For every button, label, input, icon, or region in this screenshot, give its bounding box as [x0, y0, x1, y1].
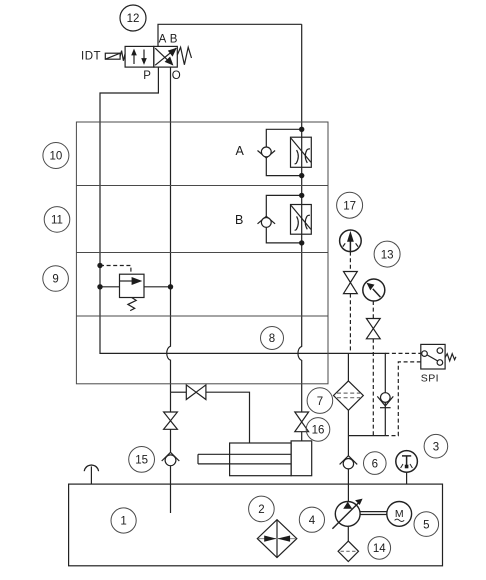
manifold divider line 2 — [76, 252, 328, 254]
circle label 5 — [414, 512, 439, 537]
gauge 13 dashed stem — [372, 301, 374, 319]
svg-text:P: P — [143, 70, 151, 82]
circle label 4 — [299, 507, 324, 532]
dashed wire pressure rail to SPI switch — [385, 352, 421, 354]
svg-text:14: 14 — [373, 543, 386, 555]
dashed wire valve 13 down to pump junction — [372, 339, 374, 436]
air breather vent — [84, 465, 98, 484]
pressure gauge 13 — [363, 279, 385, 301]
svg-text:A: A — [236, 144, 245, 158]
gauge 17 dashed stem — [349, 252, 351, 272]
relief valve 9 pilot line (dashed) — [100, 266, 131, 275]
cylinder cap-end chamber — [291, 441, 312, 476]
shutoff valve (horizontal, cylinder line) — [186, 385, 206, 400]
circle label 8 — [261, 327, 284, 350]
node dot relief right — [168, 284, 173, 289]
svg-text:5: 5 — [423, 519, 429, 531]
wire A-port up and across to main line — [158, 24, 302, 46]
node dot B bottom — [299, 240, 304, 245]
circle label 17 — [337, 192, 363, 218]
throttle valve B — [291, 205, 312, 235]
manifold divider line 3 — [76, 315, 328, 317]
check valve A seat — [258, 151, 276, 159]
wire main line (A/B work line) down right side with jog over pressure line — [298, 24, 302, 412]
manifold block outline — [76, 122, 328, 384]
svg-text:16: 16 — [312, 425, 325, 437]
check valve 15 ball — [165, 455, 176, 466]
wire pump to suction filter 14 — [347, 526, 349, 541]
check valve (pressure rail) seat — [377, 396, 393, 406]
circle label 13 — [374, 241, 400, 267]
circle label 1 — [111, 508, 136, 533]
junction wire at pump outlet — [348, 435, 385, 437]
node dot A bottom — [299, 173, 304, 178]
svg-text:1: 1 — [120, 516, 126, 528]
solenoid actuator — [105, 51, 125, 61]
circle label 6 — [364, 452, 387, 475]
cooler 2 diamond — [257, 520, 297, 558]
check valve 15 seat — [162, 452, 180, 461]
svg-text:13: 13 — [381, 249, 394, 261]
circle label 7 — [307, 388, 333, 414]
solenoid valve 12 body left position (parallel arrows) — [125, 46, 154, 67]
svg-text:8: 8 — [269, 333, 275, 345]
wire P-port to pressure rail — [100, 67, 385, 393]
circle label 15 — [129, 447, 155, 473]
node dot relief left — [97, 284, 102, 289]
tank 1 — [69, 484, 443, 566]
thermometer 3 — [396, 451, 418, 473]
wire filter 7 to junction — [347, 410, 349, 455]
svg-text:9: 9 — [52, 274, 58, 286]
wire valve 16 to cylinder cap end — [301, 432, 303, 441]
check valve A ball — [261, 147, 271, 157]
svg-text:A: A — [159, 34, 167, 46]
variable displacement pump 4 — [332, 499, 362, 529]
svg-text:B: B — [235, 213, 243, 227]
dashed wire valve to pressure rail — [349, 294, 351, 354]
valve return spring — [177, 47, 191, 65]
node dot B top — [299, 193, 304, 198]
wire check valve 15 into tank — [170, 466, 172, 513]
pressure gauge 17 — [340, 230, 362, 252]
circle label 2 — [249, 496, 275, 522]
svg-text:O: O — [172, 70, 181, 82]
check valve 6 seat — [340, 456, 358, 465]
filter 7 diamond — [334, 381, 364, 410]
pump-motor shaft — [360, 512, 387, 515]
circle label 14 — [368, 537, 391, 560]
circle label 10 — [43, 143, 69, 169]
check valve B ball — [261, 218, 271, 228]
cylinder rod — [198, 454, 291, 464]
node dot pilot tap — [97, 263, 102, 268]
wire check valve 6 to pump — [347, 469, 349, 502]
port labels A B P O — [143, 34, 181, 83]
wire valve to cylinder rod end — [206, 392, 250, 443]
svg-text:12: 12 — [127, 13, 140, 25]
node dot A top — [299, 127, 304, 132]
wire rail to filter 7 — [347, 353, 349, 381]
svg-text:11: 11 — [51, 215, 63, 227]
suction filter 14 diamond — [338, 541, 358, 561]
wire pressure rail lower segment below check valve — [384, 402, 386, 436]
svg-text:2: 2 — [258, 504, 264, 516]
cylinder return tee wire — [171, 391, 187, 393]
relief valve 9 spring — [128, 298, 136, 311]
circle label 3 — [424, 434, 448, 458]
wire O branch down to drain valve — [170, 392, 172, 412]
svg-text:3: 3 — [433, 441, 439, 453]
svg-text:4: 4 — [309, 515, 316, 527]
check valve (pressure rail) ball — [381, 393, 391, 403]
circle label 12 — [120, 5, 146, 31]
svg-text:10: 10 — [50, 151, 63, 163]
throttle valve A — [291, 137, 312, 167]
manifold divider line 1 — [76, 185, 328, 187]
check valve B seat — [258, 216, 276, 224]
circle label 11 — [44, 207, 70, 233]
shutoff valve 16 — [295, 412, 309, 432]
solenoid valve 12 body right position (crossed arrows) — [154, 46, 178, 67]
relief valve 9 body — [120, 274, 145, 297]
svg-text:IDT: IDT — [81, 51, 101, 63]
dashed wire SPI lower port to pump junction — [385, 362, 421, 436]
drain shutoff valve (above 15) — [164, 412, 178, 429]
check valve 6 ball — [343, 459, 353, 469]
gauge isolator valve (under 13) — [366, 319, 380, 339]
wire relief valve left port — [100, 286, 120, 288]
section B bypass wire — [266, 195, 301, 216]
wire O-port line down with jog over pressure rail — [167, 67, 171, 392]
thermometer stem — [406, 472, 408, 484]
svg-text:M: M — [395, 508, 404, 520]
svg-text:17: 17 — [343, 200, 356, 212]
gauge isolator valve (under 17) — [344, 272, 358, 294]
wire valve to check valve 15 — [170, 429, 172, 452]
pressure switch SPI — [421, 344, 456, 369]
cylinder body — [230, 443, 292, 476]
section A bypass wire — [266, 129, 301, 147]
svg-text:6: 6 — [372, 458, 378, 470]
svg-text:15: 15 — [135, 455, 148, 467]
wire relief valve right port — [144, 286, 171, 288]
svg-text:SPI: SPI — [421, 373, 439, 385]
check valve (pressure rail) bar — [380, 407, 391, 409]
circle label 16 — [306, 418, 330, 442]
circle label 9 — [43, 266, 69, 292]
electric motor 5 — [387, 502, 412, 527]
svg-text:B: B — [170, 34, 178, 46]
svg-text:7: 7 — [317, 396, 323, 408]
